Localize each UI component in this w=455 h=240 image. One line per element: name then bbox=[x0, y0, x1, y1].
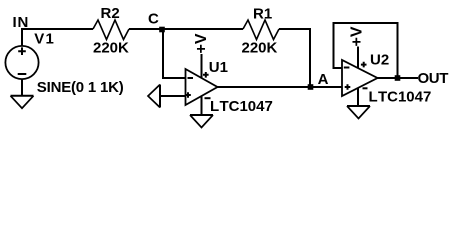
V1 plus marker bbox=[18, 47, 26, 55]
svg-text:U2: U2 bbox=[370, 51, 389, 68]
svg-text:A: A bbox=[318, 71, 329, 88]
op-amp U1 triangle bbox=[186, 69, 218, 105]
svg-text:+V: +V bbox=[193, 33, 210, 53]
svg-text:OUT: OUT bbox=[418, 70, 449, 87]
op-amp U1 V- marker bbox=[205, 97, 211, 99]
op-amp U1 V- supply pin bbox=[201, 96, 203, 115]
op-amp U1 V+ marker bbox=[203, 72, 209, 78]
svg-text:220K: 220K bbox=[242, 40, 278, 57]
op-amp U1 V+ supply pin bbox=[201, 54, 203, 79]
svg-text:LTC1047: LTC1047 bbox=[369, 88, 432, 105]
resistor R1 bbox=[243, 20, 279, 40]
wire V1 bottom to ground bbox=[21, 79, 23, 96]
wire R1 right end to corner and down to node A bbox=[279, 29, 310, 87]
op-amp U2 V+ marker bbox=[361, 62, 367, 68]
wire U2 feedback loop: output up, left, down to inverting input bbox=[334, 23, 398, 78]
resistor R2 bbox=[93, 20, 129, 40]
op-amp U2 V- marker bbox=[363, 87, 368, 89]
ground below U1 bbox=[190, 114, 213, 116]
op-amp U2 noninverting input marker bbox=[345, 84, 351, 90]
op-amp U1 noninverting input marker bbox=[185, 92, 191, 98]
op-amp U2 inverting input marker bbox=[344, 67, 350, 69]
wire R2 to R1 through node C bbox=[129, 28, 243, 30]
junction node A bbox=[308, 84, 314, 90]
svg-text:R1: R1 bbox=[253, 5, 272, 22]
svg-text:R2: R2 bbox=[101, 5, 120, 22]
wire U1 output to node A bbox=[218, 86, 342, 88]
wire U2 output to OUT bbox=[378, 77, 419, 79]
svg-text:C: C bbox=[148, 11, 159, 28]
wire IN top: V1 plus terminal up and right to R2 bbox=[22, 29, 93, 46]
svg-text:SINE(0 1 1K): SINE(0 1 1K) bbox=[37, 79, 124, 96]
ground sideways at U1 + input bbox=[159, 85, 161, 108]
op-amp U2 triangle bbox=[342, 60, 378, 96]
junction node C bbox=[159, 27, 165, 33]
ground below U2 bbox=[347, 105, 370, 107]
voltage source V1 circle bbox=[5, 46, 38, 79]
svg-text:220K: 220K bbox=[93, 40, 129, 57]
svg-text:V1: V1 bbox=[34, 31, 55, 48]
wire node C down to U1 inverting input bbox=[163, 29, 186, 78]
op-amp U2 V+ supply pin bbox=[357, 47, 359, 69]
svg-text:U1: U1 bbox=[209, 59, 228, 76]
svg-text:IN: IN bbox=[13, 14, 30, 31]
op-amp U1 inverting input marker bbox=[188, 77, 194, 79]
op-amp U2 V- supply pin bbox=[357, 88, 359, 106]
svg-text:+V: +V bbox=[348, 26, 365, 46]
ground below V1 bbox=[11, 95, 34, 97]
wire U1 noninverting input to sideways ground bbox=[160, 95, 186, 97]
V1 minus marker bbox=[18, 73, 27, 75]
junction U2 output bbox=[395, 75, 401, 81]
svg-text:LTC1047: LTC1047 bbox=[210, 98, 273, 115]
